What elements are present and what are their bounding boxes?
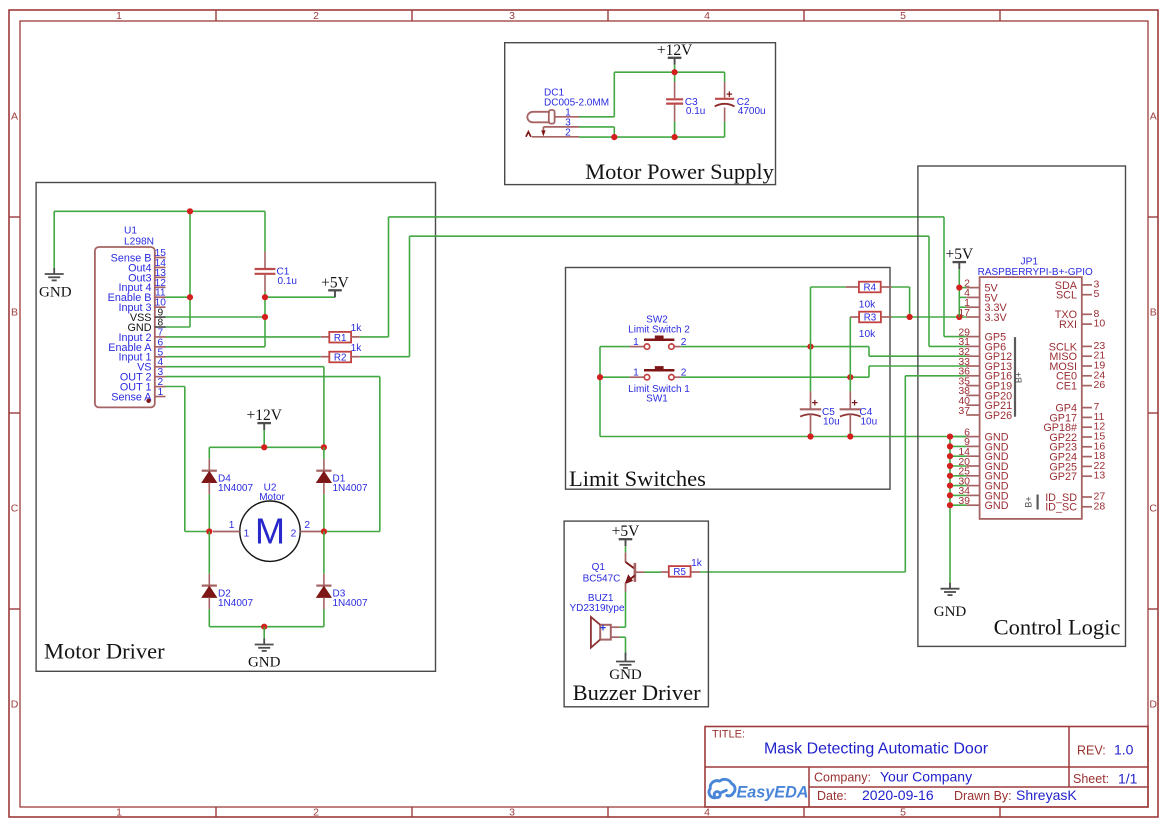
wire buzzer to GND (625, 637, 627, 652)
svg-text:1k: 1k (351, 323, 363, 334)
svg-text:DC005-2.0MM: DC005-2.0MM (544, 97, 609, 108)
svg-text:+: + (851, 398, 857, 410)
junction C1 +5V (262, 294, 268, 300)
svg-text:Control Logic: Control Logic (994, 615, 1121, 640)
svg-text:1.0: 1.0 (1114, 741, 1134, 757)
wire Input2 pin7 to R1 (166, 336, 321, 338)
svg-text:Motor Power Supply: Motor Power Supply (585, 159, 775, 184)
svg-text:1: 1 (244, 529, 250, 540)
svg-text:1N4007: 1N4007 (333, 598, 368, 609)
EasyEDA logo (709, 779, 735, 797)
svg-text:5: 5 (900, 807, 906, 819)
op-amp U1 L298N body (95, 247, 155, 407)
svg-text:D: D (1149, 698, 1157, 710)
JP1 B+ bracket main (1014, 337, 1016, 417)
svg-text:TITLE:: TITLE: (712, 729, 745, 741)
block Motor Power Supply (505, 43, 776, 185)
svg-text:B: B (1150, 306, 1157, 318)
svg-text:GND: GND (985, 500, 1009, 512)
power +12V motor bridge (263, 423, 265, 430)
svg-text:L298N: L298N (124, 237, 154, 248)
svg-text:GND: GND (248, 655, 281, 671)
svg-text:Buzzer Driver: Buzzer Driver (573, 680, 702, 705)
DC1 pin 3 with switch arm (543, 126, 579, 128)
svg-text:C: C (11, 502, 19, 514)
svg-text:+5V: +5V (321, 274, 349, 291)
svg-text:5: 5 (900, 10, 906, 22)
svg-text:GND: GND (934, 604, 967, 620)
svg-text:A: A (11, 110, 18, 122)
junction rail C4 (847, 433, 853, 439)
svg-text:3: 3 (509, 10, 515, 22)
svg-text:2: 2 (313, 807, 319, 819)
wire C1 bottom to Enable A pin6 (264, 292, 266, 347)
wires GND pin rows (950, 436, 966, 438)
wire OUT2 pin3 to motor right (166, 376, 380, 378)
svg-text:2: 2 (304, 520, 310, 531)
motor pin 2 (300, 531, 320, 533)
frame column ticks bottom (215, 807, 217, 817)
svg-text:4: 4 (704, 10, 710, 22)
power +12V (supply) (674, 58, 676, 65)
junction 3.3V R4 (907, 314, 913, 320)
wire pin11 to junction (166, 296, 191, 298)
wire Q1 emitter to buzzer (625, 592, 627, 628)
svg-text:10: 10 (1094, 318, 1106, 330)
svg-text:10u: 10u (861, 417, 878, 428)
wire pin1 3.3V L (959, 306, 966, 308)
svg-text:Motor Driver: Motor Driver (44, 639, 165, 664)
wire R4 right to 3.3V row (892, 286, 910, 288)
svg-text:Mask Detecting Automatic Door: Mask Detecting Automatic Door (764, 741, 989, 758)
svg-text:Drawn By:: Drawn By: (954, 789, 1012, 803)
frame row ticks left (9, 216, 20, 218)
svg-text:3.3V: 3.3V (985, 312, 1008, 324)
svg-text:ShreyasK: ShreyasK (1016, 787, 1077, 803)
capacitor C1 (264, 211, 266, 251)
svg-text:2020-09-16: 2020-09-16 (862, 787, 934, 803)
svg-text:10k: 10k (859, 300, 876, 311)
block Motor Driver (36, 183, 435, 672)
junction motor left (206, 528, 212, 534)
svg-text:R4: R4 (864, 283, 877, 294)
svg-text:2: 2 (313, 10, 319, 22)
junction pin11 (187, 294, 193, 300)
DC1 pin 1 (555, 116, 579, 118)
svg-text:R3: R3 (864, 313, 877, 324)
svg-text:SCL: SCL (1056, 290, 1077, 302)
buzzer pin top (611, 626, 620, 628)
svg-text:10k: 10k (859, 329, 876, 340)
block Buzzer Driver (564, 521, 708, 707)
svg-text:3: 3 (509, 807, 515, 819)
svg-text:1/1: 1/1 (1118, 771, 1138, 787)
svg-text:1: 1 (116, 807, 122, 819)
svg-text:Limit Switch 2: Limit Switch 2 (628, 324, 690, 335)
svg-text:+: + (600, 622, 606, 634)
power +5V motor driver (334, 290, 336, 297)
svg-text:RASPBERRYPI-B+-GPIO: RASPBERRYPI-B+-GPIO (978, 267, 1093, 278)
svg-text:4: 4 (704, 807, 710, 819)
svg-text:13: 13 (1094, 470, 1106, 482)
svg-text:REV:: REV: (1077, 743, 1106, 757)
svg-text:37: 37 (958, 405, 970, 417)
wire GP16 pin36 to R5 route (905, 375, 966, 377)
svg-text:1N4007: 1N4007 (218, 483, 253, 494)
diode D4 (208, 447, 210, 459)
wire VS pin4 to motor rail (166, 366, 324, 368)
svg-text:B: B (11, 306, 18, 318)
title block outline (705, 727, 1148, 808)
capacitor C3 (674, 72, 676, 82)
junction SW1 left (597, 374, 603, 380)
wire DC1 pin3 to bottom rail (579, 126, 614, 128)
wire GND bus vertical (949, 437, 951, 583)
svg-text:R1: R1 (334, 333, 347, 344)
JP1 B+ bracket ID pins (1036, 495, 1038, 510)
junction rail right VS (321, 444, 327, 450)
junction bottom rail C3 (672, 134, 678, 140)
resistor R5 1k (661, 571, 669, 573)
svg-text:C: C (1149, 502, 1157, 514)
svg-text:2: 2 (291, 529, 297, 540)
JP1 right pins with numbers and names (1082, 284, 1092, 286)
svg-text:R5: R5 (673, 567, 686, 578)
svg-text:10u: 10u (823, 417, 840, 428)
junction bottom rail GND (261, 624, 267, 630)
capacitor C5 10u (810, 347, 812, 392)
svg-text:SW1: SW1 (646, 394, 668, 405)
svg-text:1: 1 (229, 520, 235, 531)
svg-text:1: 1 (116, 10, 122, 22)
wire bottom rail (579, 136, 725, 138)
resistor R1 (321, 336, 330, 338)
resistor R3 10k (849, 317, 851, 377)
capacitor C4 10u (849, 377, 851, 391)
capacitor C2 polarized (724, 72, 726, 82)
diode D3 (323, 532, 325, 574)
wire R2 to GP6 long route (360, 356, 410, 358)
Q1 base wire to R5 (635, 571, 645, 573)
ground GND control (949, 583, 951, 589)
svg-text:1k: 1k (691, 558, 703, 569)
junction +5V pin2 (956, 285, 962, 291)
block Limit Switches (566, 268, 891, 490)
wire R1 to GP5 long route (360, 336, 389, 338)
svg-text:M: M (255, 511, 285, 552)
svg-text:+: + (812, 398, 818, 410)
junction C1 VSS (262, 314, 268, 320)
buzzer pin bottom (611, 636, 620, 638)
junction bottom rail pin3 (611, 134, 617, 140)
connector JP1 RASPBERRYPI-B+-GPIO body (980, 277, 1082, 519)
svg-text:26: 26 (1094, 379, 1106, 391)
svg-text:+12V: +12V (246, 407, 282, 424)
wire GND top rail (54, 210, 265, 212)
wire SW2 left down to SW1 left (600, 346, 630, 348)
wire +5V row (265, 296, 335, 298)
svg-text:BC547C: BC547C (583, 574, 621, 585)
wire ground rail (600, 436, 966, 438)
junction +12V rail (672, 69, 678, 75)
svg-text:Date:: Date: (817, 789, 847, 803)
switch SW1 Limit Switch 1 (630, 376, 645, 378)
wire SW2 right to GP12 with step (681, 346, 869, 348)
title block v-line logo (808, 767, 810, 807)
svg-text:GP26: GP26 (985, 410, 1013, 422)
U1 pin1 dot marker (146, 399, 150, 403)
svg-text:0.1u: 0.1u (686, 106, 705, 117)
junction +12V rail (261, 444, 267, 450)
wire bridge bottom rail (209, 626, 324, 628)
frame column ticks top (215, 10, 217, 21)
wire Input1 pin5 to R2 (166, 356, 321, 358)
svg-text:R2: R2 (334, 353, 347, 364)
junction 3.3V pin1 branch (956, 314, 962, 320)
wire VSS pin9 row (166, 316, 266, 318)
svg-text:5: 5 (1094, 288, 1100, 300)
title block h-line 2 (809, 786, 1148, 788)
svg-text:4700u: 4700u (738, 106, 766, 117)
svg-text:D: D (11, 698, 19, 710)
svg-text:CE1: CE1 (1056, 381, 1077, 393)
ground GND motor bridge (263, 627, 265, 639)
svg-text:1N4007: 1N4007 (333, 483, 368, 494)
svg-text:+12V: +12V (657, 42, 693, 59)
wire bridge top rail (209, 446, 324, 448)
wire SW left vertical to rail (599, 377, 601, 436)
ground GND left (53, 211, 55, 268)
junction SW1 row C4 branch (847, 374, 853, 380)
wire R3 right 3.3V row to pin17 (892, 316, 967, 318)
svg-text:1N4007: 1N4007 (218, 598, 253, 609)
buzzer BUZ1 speaker symbol (600, 625, 611, 640)
svg-text:YD2319type: YD2319type (569, 603, 624, 614)
svg-text:B+: B+ (1024, 496, 1034, 507)
svg-text:Your Company: Your Company (880, 769, 972, 785)
resistor R4 10k (810, 287, 812, 347)
svg-text:A: A (1150, 110, 1157, 122)
svg-text:Company:: Company: (814, 771, 871, 785)
svg-text:0.1u: 0.1u (278, 276, 297, 287)
svg-text:2: 2 (565, 127, 571, 138)
svg-text:EasyEDA: EasyEDA (737, 784, 809, 802)
motor pin 1 (213, 531, 240, 533)
resistor R2 (321, 356, 330, 358)
wire pin4 5V L (959, 296, 966, 298)
diode D2 (208, 532, 210, 574)
wire left vertical to DC1 pin1 (613, 72, 615, 117)
svg-text:28: 28 (1094, 500, 1106, 512)
ground GND buzzer (625, 653, 627, 657)
diode D1 (323, 447, 325, 459)
svg-text:39: 39 (958, 495, 970, 507)
power +5V buzzer (625, 539, 627, 546)
title block v-line rev (1068, 727, 1070, 788)
svg-text:GP27: GP27 (1049, 471, 1077, 483)
DC1 pin 2 with spring contact (532, 136, 579, 138)
wire OUT1 pin2 to motor left (166, 386, 185, 388)
svg-text:JP1: JP1 (1021, 257, 1039, 268)
svg-text:1: 1 (633, 367, 639, 378)
junction rail x190 (187, 208, 193, 214)
junction motor right (321, 528, 327, 534)
svg-text:1k: 1k (351, 343, 363, 354)
svg-text:RXI: RXI (1059, 319, 1077, 331)
wire rail to pin8 vertical (189, 211, 191, 327)
frame row ticks right (1148, 216, 1158, 218)
svg-text:17: 17 (958, 307, 970, 319)
wire pin2 5V stub (959, 287, 966, 289)
motor U2 circle (240, 501, 300, 561)
U1 pins 15..1 with numbers and names (155, 257, 166, 259)
title block h-line 1 (705, 766, 1148, 768)
switch SW2 Limit Switch 2 (630, 346, 645, 348)
svg-text:1: 1 (157, 387, 163, 398)
svg-text:ID_SC: ID_SC (1045, 502, 1077, 514)
power +5V control (958, 262, 960, 269)
wire +12V top rail (614, 71, 724, 73)
svg-text:+: + (726, 89, 732, 101)
svg-text:+5V: +5V (945, 246, 973, 263)
JP1 left pins with numbers and names (966, 287, 979, 289)
junction SW2 row C5 branch (807, 344, 813, 350)
svg-text:+5V: +5V (612, 523, 640, 540)
svg-text:Q1: Q1 (592, 562, 606, 573)
svg-text:GND: GND (609, 667, 642, 683)
svg-text:1: 1 (633, 337, 639, 348)
svg-text:Limit Switches: Limit Switches (569, 466, 706, 491)
svg-text:Sense A: Sense A (111, 391, 152, 403)
wire SW1 right to GP13 with step (681, 376, 869, 378)
svg-text:GND: GND (39, 285, 72, 301)
svg-text:U1: U1 (124, 226, 137, 237)
junction rail C5 (807, 433, 813, 439)
block Control Logic (918, 166, 1126, 646)
svg-text:B+: B+ (1013, 372, 1023, 383)
svg-text:Sheet:: Sheet: (1073, 772, 1109, 786)
